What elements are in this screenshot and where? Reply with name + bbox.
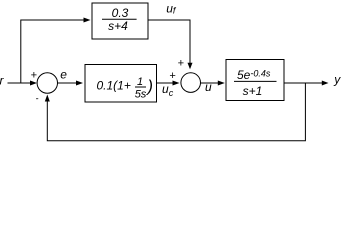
wire u: summer 2 to plant block [201,82,219,84]
svg-text:+: + [169,70,176,82]
svg-text:s+1: s+1 [243,84,263,98]
wire output to y [284,82,323,84]
svg-text:0.1(1+: 0.1(1+ [97,79,131,93]
block plant 5e^-0.4s/(s+1) [226,60,284,101]
summer 2 (summing junction) [181,73,201,93]
wire e: summer 1 to PI block [58,82,77,84]
wire uc: PI block to summer 2 [157,82,174,84]
fraction bar of 1/5s [135,86,146,88]
wire feedback: branch down, bottom run, up into summer 1 [47,83,305,141]
fraction bar of 0.3/(s+4) [102,18,137,20]
svg-text:-: - [36,94,39,104]
block PI controller 0.1(1+1/5s) [85,65,157,103]
svg-text:u: u [205,80,212,94]
svg-text:1: 1 [137,76,143,88]
summer 1 (summing junction) [37,73,57,93]
svg-text:e: e [60,68,67,82]
svg-text:s+4: s+4 [108,19,128,33]
svg-text:): ) [146,78,154,96]
wire branch up from r line to feedforward block [21,20,84,83]
fraction bar of plant [234,80,277,82]
svg-text:y: y [333,73,341,87]
svg-text:+: + [177,58,184,70]
wire from feedforward block to summer 2 [149,20,191,63]
svg-text:5s: 5s [135,88,147,100]
wire r to summer 1 [8,82,31,84]
block Gf 0.3/(s+4) [92,3,148,39]
svg-text:+: + [30,70,37,82]
